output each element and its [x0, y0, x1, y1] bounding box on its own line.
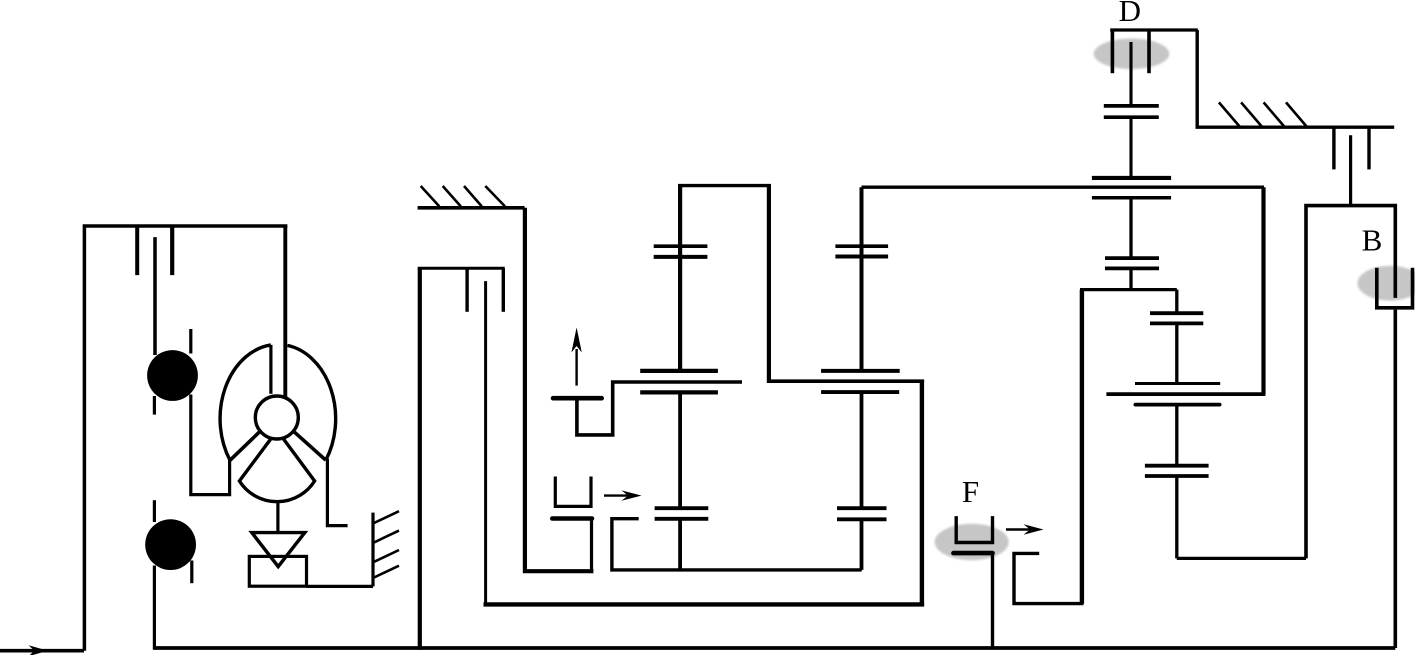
- F hook path: [1014, 553, 1084, 603]
- sleeve III link vertical: [590, 519, 593, 572]
- gear bar 1177 cluster middle long: [1106, 392, 1265, 396]
- right ceiling hatch 4: [1286, 102, 1307, 126]
- shaft VI first segment: [1175, 324, 1178, 385]
- up arrowhead: [571, 328, 581, 353]
- gear bar 680 cluster lower: [640, 390, 718, 394]
- coupling I left tick: [135, 226, 139, 275]
- shaft I stub below upper ball: [153, 396, 156, 415]
- shaft IV middle segment: [860, 392, 864, 508]
- shaft IV upper segment: [860, 187, 864, 369]
- wall hatch 4: [373, 566, 399, 578]
- shaft II vertical: [484, 281, 487, 603]
- gear bar 1177 cluster lower: [1135, 403, 1219, 407]
- gear pair 1177 bottom bar2: [1145, 474, 1209, 478]
- middle arrowhead: [622, 490, 642, 500]
- shaft V top segment: [1129, 42, 1132, 106]
- highlight ellipse at clutch D: [1094, 39, 1170, 70]
- F arrow tail: [1006, 528, 1036, 530]
- gear pair 680 top bar2: [654, 255, 708, 259]
- sleeve III line: [552, 516, 592, 521]
- gear bar 860 cluster upper: [821, 369, 900, 373]
- gear bar 1131 cluster upper: [1092, 176, 1171, 180]
- lower connecting line with hook: [612, 519, 862, 570]
- input line with arrow: [0, 649, 84, 653]
- shaft VI output horizontal: [1177, 557, 1306, 560]
- shaft III lower segment: [678, 519, 682, 570]
- clutch D left tick: [1111, 30, 1115, 73]
- right ceiling hatch 2: [1241, 102, 1262, 126]
- shaft V second segment: [1129, 117, 1132, 178]
- loop top horizontal: [678, 184, 771, 187]
- loop middle horizontal: [769, 379, 924, 383]
- gear pair 860 bottom bar1: [837, 506, 887, 510]
- shaft VI third segment: [1175, 476, 1178, 558]
- gear bar 1177 cluster upper: [1135, 382, 1220, 385]
- gear pair 1131 mid bar2: [1105, 266, 1159, 270]
- shift link Z: [577, 382, 742, 435]
- svg-text:D: D: [1119, 0, 1141, 28]
- shaft III middle segment: [678, 392, 682, 508]
- shaft I upper segment: [153, 237, 157, 355]
- variator housing left arc: [220, 345, 271, 460]
- shaft I lower segment: [153, 566, 156, 650]
- gear pair 680 bottom bar1: [655, 506, 709, 510]
- shaft E vertical: [1349, 135, 1352, 205]
- right ceiling hatch 1: [1219, 102, 1240, 126]
- ring link below upper ball: [191, 395, 230, 495]
- shaft III upper leg: [678, 186, 682, 373]
- ceiling hatch 2: [443, 186, 461, 206]
- svg-text:B: B: [1362, 223, 1383, 258]
- cone sector: [239, 438, 314, 502]
- wall hatch 3: [373, 550, 399, 562]
- sleeve F vertical: [991, 553, 994, 648]
- right ceiling path: [1197, 30, 1394, 127]
- slot wall left: [269, 345, 272, 394]
- gear pair 680 top bar1: [654, 244, 708, 248]
- clutch D top line: [1110, 28, 1198, 31]
- contact tick below lower ball: [190, 561, 193, 584]
- right gear box frame: [1306, 206, 1395, 559]
- shaft VI second segment: [1175, 405, 1178, 466]
- right drop vertical to cluster: [1261, 187, 1265, 394]
- gear pair 680 bottom bar2: [655, 517, 709, 521]
- sleeve II line: [553, 396, 602, 401]
- top long line to right unit: [862, 185, 1265, 188]
- clutch D right tick: [1147, 30, 1151, 73]
- fork III: [555, 477, 591, 507]
- ceiling of middle unit: [418, 206, 525, 210]
- frame drop into variator slot: [283, 226, 287, 398]
- wall hatch 2: [373, 531, 399, 543]
- right drop from housing: [327, 459, 347, 526]
- carrier right vertical: [1175, 290, 1178, 314]
- gear bar 680 cluster upper: [640, 369, 718, 373]
- gear pair 860 bottom bar2: [837, 517, 887, 521]
- gear pair 1177 top bar2: [1150, 321, 1203, 325]
- ceiling hatch 1: [421, 186, 440, 206]
- gear pair 1131 mid bar1: [1105, 256, 1159, 260]
- middle wall with bottom hook: [525, 208, 594, 571]
- right frame lower segment: [1394, 310, 1398, 648]
- gear pair 1177 bottom bar1: [1145, 464, 1209, 468]
- friction ball upper: [147, 350, 198, 401]
- carrier left vertical: [1080, 290, 1084, 604]
- fork F: [956, 516, 992, 542]
- gear pair 1131 top bar2: [1104, 115, 1159, 119]
- wall hatch 1: [373, 511, 399, 523]
- U frame top line: [418, 267, 505, 270]
- carrier horizontal: [1080, 288, 1177, 291]
- F arrowhead: [1024, 524, 1044, 534]
- fork B: [1377, 268, 1413, 308]
- shaft V third segment: [1129, 198, 1132, 258]
- gear pair 860 top bar2: [835, 255, 888, 259]
- highlight ellipse at fork B: [1358, 266, 1415, 301]
- coupling II left tick: [465, 268, 468, 312]
- right ceiling hatch 3: [1264, 102, 1285, 126]
- support base line: [307, 585, 374, 588]
- U frame vertical of middle unit: [418, 268, 422, 649]
- sleeve F line: [953, 551, 992, 556]
- ceiling hatch 4: [485, 186, 505, 206]
- coupling II right tick: [502, 268, 505, 312]
- svg-text:F: F: [962, 474, 979, 509]
- friction ball lower: [145, 519, 196, 570]
- input arrowhead: [29, 645, 49, 655]
- cone lower shaft: [276, 501, 279, 533]
- gear pair 1177 top bar1: [1150, 311, 1203, 315]
- wall of left unit: [371, 513, 374, 587]
- coupling E right tick: [1367, 127, 1370, 169]
- left frame (input shaft housing): [84, 226, 287, 651]
- highlight ellipse at fork F: [935, 524, 1009, 560]
- loop inner vertical: [767, 186, 771, 383]
- lower loop line: [484, 602, 925, 606]
- shaft V bottom segment: [1129, 268, 1132, 289]
- middle arrow tail: [604, 494, 634, 496]
- bottom main line: [154, 646, 1395, 650]
- thrust cone triangle: [252, 533, 305, 567]
- support block: [249, 556, 306, 586]
- ring contact above upper ball: [189, 329, 192, 354]
- arm right: [293, 431, 325, 460]
- shaft IV lower segment: [860, 519, 864, 570]
- arm left: [230, 431, 260, 460]
- gear pair 860 top bar1: [835, 244, 888, 248]
- carrier circle: [255, 396, 298, 439]
- shaft I stub above lower ball: [153, 500, 156, 522]
- coupling I right tick: [170, 226, 174, 275]
- gear bar 1131 cluster lower: [1092, 196, 1171, 200]
- gear pair 1131 top bar1: [1104, 104, 1159, 108]
- loop right vertical: [920, 380, 924, 606]
- up arrow tail: [575, 349, 577, 386]
- variator housing right arc: [287, 345, 335, 460]
- coupling E left tick: [1332, 127, 1335, 169]
- gear bar 860 cluster lower: [821, 390, 899, 394]
- ceiling hatch 3: [464, 186, 482, 206]
